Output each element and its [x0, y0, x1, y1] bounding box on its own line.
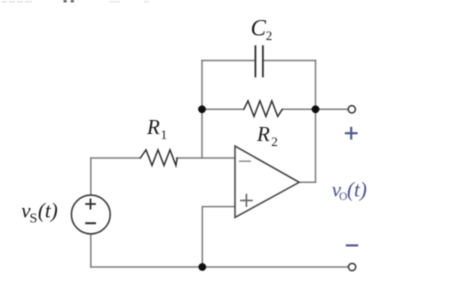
svg-text:S: S	[30, 211, 38, 226]
svg-text:1: 1	[161, 127, 168, 142]
svg-text:R: R	[146, 115, 160, 139]
svg-text:C: C	[251, 15, 267, 40]
svg-text:(t): (t)	[38, 199, 58, 223]
svg-text:2: 2	[271, 134, 278, 149]
svg-text:2: 2	[266, 28, 273, 43]
svg-text:(t): (t)	[347, 177, 367, 201]
svg-text:R: R	[256, 122, 270, 146]
